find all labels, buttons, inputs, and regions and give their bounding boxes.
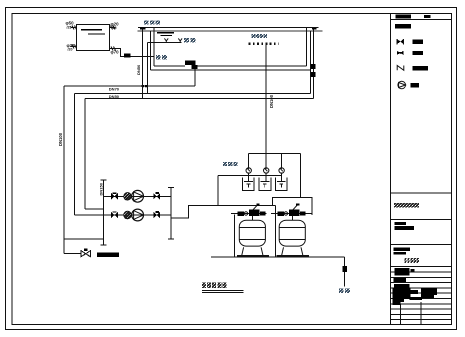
- title block table rows: [391, 266, 452, 268]
- riser overflow: [84, 99, 86, 209]
- drain stub: [194, 69, 196, 86]
- title block divider 3: [391, 243, 452, 245]
- filter1 left downpipe: [234, 215, 236, 258]
- tank stub top-left: [71, 27, 77, 29]
- svg-text:DN50: DN50: [109, 94, 120, 99]
- overflow port right: [312, 28, 317, 30]
- suction header: [103, 180, 105, 245]
- pool left wall inner: [153, 28, 155, 67]
- discharge header: [170, 188, 172, 239]
- inlet feed pipe: [147, 42, 149, 93]
- filter2 left downpipe: [275, 205, 277, 257]
- branch2 pump: [132, 209, 144, 221]
- svg-text:DN150: DN150: [99, 182, 104, 195]
- drain valve: [81, 251, 91, 257]
- dosing tank 2: [259, 178, 271, 191]
- blowdown valve: [342, 266, 347, 272]
- label DN70 black: [124, 54, 131, 58]
- legend pump symbol: [398, 81, 406, 89]
- filter1 vessel: [239, 220, 265, 246]
- pool bottom inner: [154, 65, 185, 67]
- inlet nozzle Y1: [164, 38, 168, 42]
- drawing title text: [202, 282, 206, 288]
- branch2 check valve: [154, 212, 160, 218]
- dosing tank 1: [243, 178, 254, 191]
- label chidihuishui: [251, 34, 254, 38]
- pool bottom outer: [151, 69, 312, 71]
- filter2 base plate: [277, 255, 309, 257]
- pipe H2 supply line: [75, 92, 311, 94]
- dosing pump 1: [246, 168, 251, 173]
- svg-text:DN50: DN50: [136, 64, 141, 75]
- title block divider 2: [391, 218, 452, 220]
- title block left border: [390, 14, 392, 325]
- inlet nozzle Y2: [178, 38, 182, 42]
- table column dividers: [399, 304, 401, 325]
- valve on right downpipe 1: [311, 64, 316, 69]
- dosing pump stub 3: [281, 153, 283, 168]
- svg-text:DN100: DN100: [269, 94, 274, 108]
- label touyaobeng: [223, 162, 227, 166]
- branch1 strainer: [124, 193, 131, 200]
- overflow port left: [140, 28, 145, 30]
- dosing header right leg: [299, 153, 301, 197]
- riser drain DN100: [63, 86, 65, 254]
- dosing injection leg: [217, 175, 219, 205]
- inlet line: [148, 41, 182, 43]
- dosing pump 3: [279, 168, 284, 173]
- dosing tank 3: [276, 178, 287, 191]
- drain branch line: [64, 253, 81, 255]
- label bushui: [156, 55, 161, 59]
- pump branch 1 line: [104, 195, 171, 197]
- dosing pump stub 1: [248, 153, 250, 168]
- filter2 manifold: [271, 213, 312, 215]
- pool right wall inner: [306, 28, 308, 67]
- pool rim: [138, 27, 319, 29]
- branch2 strainer: [124, 211, 131, 218]
- filter1 manifold: [231, 213, 266, 215]
- tank outlet pipe to pool: [110, 49, 154, 57]
- title block header row: [391, 19, 452, 21]
- riser supply: [74, 93, 76, 215]
- dosing header: [249, 152, 301, 154]
- dosing suction line: [218, 174, 281, 176]
- overflow downpipe left: [142, 29, 144, 99]
- legend gate valve symbol: [397, 39, 403, 44]
- filter1 base plate: [237, 255, 269, 257]
- legend title: [395, 24, 411, 29]
- blowdown leg: [344, 257, 346, 287]
- filter2 vessel: [279, 220, 305, 246]
- filter2 top stub: [291, 216, 293, 221]
- pool main drain box: [185, 60, 196, 65]
- connector to header: [85, 208, 104, 210]
- bottom connector to header: [64, 238, 104, 240]
- filter1 top stub: [251, 216, 253, 221]
- svg-text:/15: /15: [112, 26, 117, 30]
- label fangkong: [339, 288, 344, 293]
- svg-text:DN70: DN70: [109, 87, 120, 92]
- pump branch 2 line: [75, 214, 171, 216]
- legend butterfly valve symbol: [397, 51, 403, 55]
- balance tank: [77, 25, 110, 51]
- tank stub bottom-left: [71, 46, 77, 48]
- title block divider 1: [391, 192, 452, 194]
- tank stub top-right: [110, 27, 116, 29]
- design institute text: [394, 203, 419, 207]
- filter feed jog: [272, 198, 312, 215]
- table text blobs: [394, 268, 409, 276]
- filter2 skirt: [282, 247, 303, 255]
- svg-text:DN100: DN100: [58, 132, 63, 146]
- pool water level symbol: [157, 32, 174, 34]
- filter1 skirt: [242, 247, 263, 255]
- pipe H3 overflow return line: [85, 98, 313, 100]
- drain label black: [97, 252, 119, 257]
- overflow label: [144, 20, 149, 24]
- svg-text:/20: /20: [68, 47, 73, 51]
- dosing pump 2: [264, 168, 269, 173]
- branch2 suction valve: [111, 212, 118, 218]
- svg-text:/25: /25: [67, 26, 72, 30]
- branch1 suction valve: [111, 193, 118, 199]
- label jishui: [184, 38, 189, 42]
- pool return pipe DN100: [265, 45, 267, 154]
- svg-text:φ70: φ70: [111, 49, 120, 54]
- pool water line: [138, 30, 323, 32]
- perforated return header dashed: [249, 43, 279, 45]
- branch1 pump: [132, 190, 144, 202]
- branch1 check valve: [154, 193, 160, 199]
- project name glyphs: [404, 258, 406, 263]
- title underline double: [202, 290, 244, 292]
- dosing pump stub 2: [265, 153, 267, 168]
- overflow downpipe right: [313, 29, 315, 98]
- discharge route to filters: [171, 205, 276, 218]
- pool left wall outer: [150, 31, 152, 70]
- legend check valve symbol: [397, 66, 404, 71]
- tank water level symbol: [81, 29, 102, 31]
- valve on right downpipe 2: [311, 72, 316, 77]
- pipe H1 drain line: [64, 85, 195, 87]
- pool right wall outer / pipe: [310, 31, 312, 93]
- junction dots: [141, 85, 144, 88]
- bottom backwash pipe: [211, 256, 345, 258]
